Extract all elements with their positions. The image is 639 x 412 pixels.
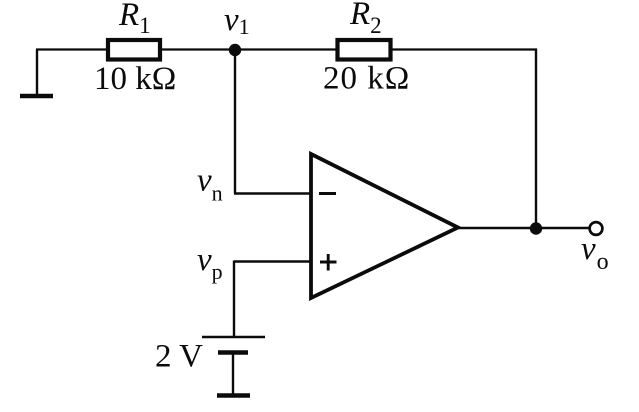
svg-text:vp: vp — [197, 242, 223, 284]
svg-text:20 kΩ: 20 kΩ — [323, 61, 410, 97]
svg-text:vo: vo — [581, 231, 609, 275]
ground (below battery) — [217, 393, 250, 398]
wire: vp down to battery positive plate — [233, 261, 235, 338]
battery 2V: positive plate (long) — [202, 336, 265, 339]
wire: top wire, ground to R1 — [36, 48, 108, 50]
svg-text:v1: v1 — [224, 2, 250, 39]
ground (left) — [20, 94, 53, 98]
wire: top wire, R1 to node v1 — [160, 48, 235, 50]
node: output junction dot — [530, 222, 542, 234]
resistor R1 (body) — [108, 40, 160, 60]
svg-text:vn: vn — [197, 163, 223, 206]
wire: op-amp output — [457, 227, 589, 229]
op-amp non-inverting input marker (+) — [320, 254, 337, 271]
node v1 (junction dot) — [229, 44, 241, 56]
wire: top wire, v1 to R2 — [235, 48, 338, 50]
wire: non-inverting input horizontal — [234, 260, 311, 262]
battery 2V: negative plate (short) — [218, 350, 248, 355]
wire: right vertical, corner down to output node — [535, 49, 537, 229]
svg-text:R1: R1 — [118, 0, 151, 38]
wire: inverting input horizontal — [234, 192, 311, 194]
wire: v1 down to inverting input — [234, 50, 236, 194]
wire: ground stub vertical (top-left) — [36, 50, 38, 95]
svg-text:R2: R2 — [349, 0, 382, 38]
wire: battery negative to ground — [232, 353, 234, 394]
resistor R2 (body) — [338, 40, 391, 60]
svg-text:10 kΩ: 10 kΩ — [94, 61, 176, 97]
op-amp inverting input marker (−) — [319, 192, 336, 195]
svg-text:2 V: 2 V — [155, 339, 203, 375]
op-amp U1 (triangle) — [311, 154, 458, 298]
wire: top wire, R2 to right corner — [390, 48, 537, 50]
terminal vo (open circle) — [590, 222, 603, 235]
